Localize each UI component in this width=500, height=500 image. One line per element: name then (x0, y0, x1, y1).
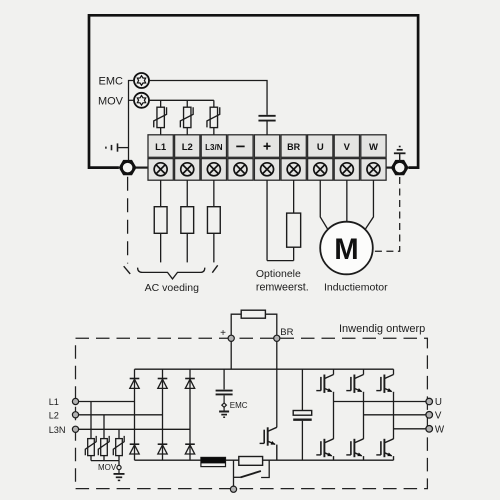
wire DC- junction to bottom node (233, 460, 235, 488)
wire MOV bus tap 1 (160, 100, 162, 107)
diode D6 (lower) (185, 444, 195, 454)
terminal label cell + (254, 135, 279, 158)
terminal U (schematic) (426, 398, 433, 405)
wire varistor RV1 to terminal (160, 128, 162, 135)
terminal L3N (schematic) (72, 426, 78, 432)
svg-text:L1: L1 (155, 142, 167, 153)
inverter leg 2 wires (363, 369, 365, 439)
dashed wire below left nut (127, 177, 129, 264)
wire U terminal to motor (320, 180, 328, 229)
wire brake resistor down (293, 247, 295, 260)
terminal screw cell L1 (148, 159, 173, 181)
IGBT Q4 (lower) (316, 439, 333, 460)
wire input L3N (79, 428, 190, 430)
bracket wire from screws to nut (129, 81, 135, 161)
terminal label cell BR (281, 135, 306, 158)
inrush resistor R1 (239, 457, 263, 466)
svg-text:EMC: EMC (230, 401, 248, 410)
DC- bus wire (135, 459, 394, 461)
dash tick left of brace (124, 266, 131, 274)
inverter leg 3 wires (393, 369, 395, 439)
svg-text:U: U (435, 397, 442, 408)
wire V terminal to motor (346, 180, 348, 222)
terminal W (schematic) (426, 426, 433, 433)
fuse F3 (207, 207, 220, 234)
terminal screw symbol - (234, 163, 247, 176)
svg-text:U: U (317, 142, 324, 153)
earth symbol EMC (219, 407, 229, 417)
diode D1 (upper) (130, 379, 140, 389)
terminal screw symbol L1 (154, 163, 167, 176)
varistor MOV1 (schematic) (85, 436, 96, 456)
DC+ bus wire (135, 368, 394, 370)
svg-text:Inwendig ontwerp: Inwendig ontwerp (339, 323, 425, 335)
bypass relay contact S1 (234, 460, 270, 477)
dashed enclosure box (Inwendig ontwerp) (76, 338, 428, 488)
IGBT Q1 (upper) (316, 375, 333, 393)
wire varistor MOV3 down (118, 456, 120, 461)
wire varistor RV2 to terminal (186, 128, 188, 135)
varistor MOV3 (schematic) (113, 436, 124, 456)
svg-text:L2: L2 (182, 142, 193, 153)
IGBT Q3 (upper) (376, 375, 393, 393)
wire + terminal down (266, 180, 268, 260)
terminal label cell L1 (148, 135, 173, 158)
wire terminal L1 to fuse F1 (160, 180, 162, 207)
svg-text:L2: L2 (49, 410, 59, 420)
svg-text:Inductiemotor: Inductiemotor (324, 282, 388, 294)
wire output U (334, 401, 426, 403)
wire MOV bus tap 2 (186, 100, 188, 107)
brake resistor (optional) (287, 213, 301, 247)
wire MOV bus tap 3 (213, 100, 215, 107)
node + terminal (228, 335, 234, 341)
terminal L1 (schematic) (72, 398, 78, 404)
wire DC bus to DC-link capacitor (301, 369, 303, 410)
terminal label cell - (228, 135, 253, 158)
wire varistor MOV2 down (103, 456, 105, 461)
svg-text:L3/N: L3/N (205, 143, 223, 152)
external brake resistor (schematic) (241, 310, 265, 318)
node bottom terminal (230, 486, 236, 492)
terminal screw cell V (334, 159, 359, 181)
wire output W (394, 428, 426, 430)
inverter leg 1 wires (333, 369, 335, 439)
diode D5 (lower) (158, 444, 168, 454)
DC-link capacitor C1 (293, 411, 312, 420)
svg-text:V: V (344, 142, 351, 153)
brace AC voeding (138, 268, 205, 279)
terminal screw cell + (254, 159, 279, 181)
svg-text:MOV: MOV (98, 463, 117, 472)
wire + to BR bottom link (267, 260, 294, 262)
varistor RV1 (top section) (154, 107, 167, 127)
terminal L2 (schematic) (72, 412, 78, 418)
varistor RV2 (top section) (180, 107, 193, 127)
rectifier leg 2 wire (162, 369, 164, 460)
fuse F2 (181, 207, 194, 234)
terminal screw symbol W (367, 163, 380, 176)
svg-text:M: M (334, 233, 358, 266)
wire + node to DC bus (230, 341, 232, 369)
diode D2 (upper) (158, 379, 168, 389)
wire DC bus to EMC capacitor (223, 369, 225, 389)
rectifier leg 3 wire (189, 369, 191, 460)
diode D4 (lower) (130, 444, 140, 454)
wire EMC capacitor to link (223, 395, 225, 403)
IGBT Q2 (upper) (346, 375, 363, 393)
varistor RV3 (top section) (207, 107, 220, 127)
wire terminal L2 to fuse F2 (186, 180, 188, 207)
terminal screw cell L3/N (201, 159, 226, 181)
induction motor M1 (320, 222, 373, 275)
left mounting nut (PE stud) (119, 160, 137, 175)
svg-text:+: + (220, 328, 226, 339)
right mounting nut (PE stud) (391, 160, 409, 175)
diode D3 (upper) (185, 379, 195, 389)
terminal screw cell - (228, 159, 253, 181)
EMC disconnect screw (134, 73, 149, 88)
terminal label cell L3/N (201, 135, 226, 158)
terminal V (schematic) (426, 412, 433, 419)
fuse F1 (154, 207, 167, 234)
MOV disconnect screw (134, 93, 149, 108)
IGBT Q6 (lower) (376, 439, 393, 460)
terminal label cell L2 (175, 135, 200, 158)
wire fuse F2 to supply (186, 233, 188, 262)
svg-text:V: V (435, 411, 442, 422)
drive enclosure outline (89, 15, 418, 167)
svg-text:Optionele: Optionele (256, 268, 301, 280)
terminal screw cell L2 (175, 159, 200, 181)
dash tick right of brace (212, 265, 217, 272)
wire capacitor to + terminal (266, 122, 268, 135)
MOV bus wire (149, 99, 214, 101)
wire DC-link capacitor to DC- bus (301, 421, 303, 460)
svg-text:BR: BR (287, 142, 300, 152)
svg-text:AC voeding: AC voeding (145, 282, 199, 294)
wire right nut to terminal strip (386, 167, 392, 169)
earth symbol left (sideways) (106, 143, 129, 151)
dashed PE wire nut to motor frame (373, 177, 400, 251)
wire W terminal to motor (365, 180, 373, 229)
wire fuse F3 to supply (213, 233, 215, 262)
wire varistor RV3 to terminal (213, 128, 215, 135)
earth symbol MOV (114, 470, 125, 481)
svg-text:W: W (435, 425, 445, 436)
wire input L1 (79, 401, 135, 403)
wire + node to ext resistor (231, 314, 241, 335)
terminal screw symbol L2 (181, 163, 194, 176)
rectifier leg 1 wire (134, 369, 136, 460)
terminal label cell V (334, 135, 359, 158)
wire fuse F1 to supply (160, 233, 162, 262)
terminal label cell W (361, 135, 386, 158)
terminal screw cell W (361, 159, 386, 181)
MOV common wire (91, 461, 119, 466)
capacitor C-EMC (top section) (258, 116, 275, 121)
wire BR terminal to brake resistor (293, 180, 295, 213)
wire tap to varistor MOV2 (103, 415, 105, 439)
terminal screw cell U (308, 159, 333, 181)
varistor MOV2 (schematic) (98, 436, 109, 456)
current shunt (filled) (201, 457, 226, 466)
wire input L2 (79, 414, 163, 416)
EMC link diamond (222, 403, 227, 407)
earth symbol above right nut (394, 147, 406, 162)
wire BR node to brake IGBT (276, 341, 278, 427)
svg-text:W: W (369, 142, 378, 153)
terminal label '+' (264, 143, 271, 150)
terminal label '-' dash (236, 145, 244, 147)
svg-text:BR: BR (280, 327, 293, 338)
terminal screw cell BR (281, 159, 306, 181)
wire varistor MOV1 down (90, 456, 92, 461)
wire EMC screw to capacitor (149, 81, 267, 115)
terminal screw symbol L3/N (207, 163, 220, 176)
terminal screw symbol BR (287, 163, 300, 176)
wire ext resistor to BR node (265, 314, 276, 335)
wire tap to varistor MOV1 (90, 402, 92, 439)
node BR terminal (274, 335, 280, 341)
terminal screw symbol U (314, 163, 327, 176)
capacitor EMC (schematic) (216, 391, 233, 395)
terminal label cell U (308, 135, 333, 158)
svg-text:EMC: EMC (99, 76, 124, 88)
svg-text:remweerst.: remweerst. (256, 281, 309, 293)
brake chopper IGBT Q7 (260, 427, 277, 460)
terminal screw symbol V (340, 163, 353, 176)
svg-text:L1: L1 (49, 397, 59, 407)
svg-text:L3N: L3N (49, 425, 66, 435)
wire output V (364, 414, 426, 416)
terminal screw symbol + (261, 163, 274, 176)
IGBT Q5 (lower) (346, 439, 363, 460)
svg-text:MOV: MOV (98, 96, 124, 108)
wire terminal L3/N to fuse F3 (213, 180, 215, 207)
wire left nut to terminal strip (136, 167, 149, 169)
MOV link circle (117, 465, 121, 469)
wire tap to varistor MOV3 (118, 429, 120, 438)
